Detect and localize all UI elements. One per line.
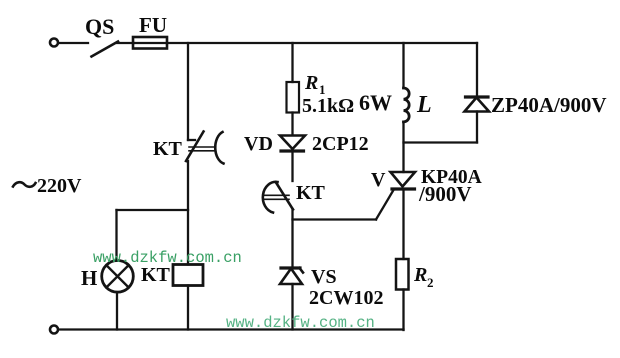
diode VD [280, 136, 305, 152]
svg-text:KT: KT [296, 182, 326, 204]
KT contact (middle) blade [276, 183, 293, 210]
label V [371, 169, 386, 191]
label R2 [413, 264, 434, 290]
wire KT branch from top bus down to contact [188, 43, 195, 140]
svg-text:L: L [416, 92, 432, 118]
relay coil KT [173, 265, 203, 286]
svg-text:H: H [81, 266, 97, 290]
wire contact to VS [291, 209, 293, 267]
wire terminal to switch QS [59, 42, 89, 44]
label /900V [418, 182, 472, 206]
svg-text:5.1kΩ: 5.1kΩ [302, 95, 354, 117]
svg-text:220V: 220V [37, 175, 82, 197]
KT contact (left) delay arc [215, 132, 223, 164]
resistor R2 [396, 259, 409, 290]
wire L/ZP link [404, 141, 478, 143]
wire R2 to bottom bus [402, 290, 404, 331]
label ZP40A/900V [491, 93, 607, 117]
wire gate diagonal to thyristor [376, 190, 394, 220]
wire L to thyristor [402, 122, 404, 172]
wire R1 to VD [291, 113, 293, 136]
label L [416, 92, 432, 118]
lamp H [102, 261, 134, 293]
svg-text:KT: KT [153, 138, 183, 160]
wire lamp branch down [115, 210, 117, 261]
inductor L [404, 88, 410, 122]
svg-text:R: R [304, 72, 318, 94]
svg-text:ZP40A/900V: ZP40A/900V [491, 93, 607, 117]
KT time-delay contact (middle) delay arc [263, 182, 278, 213]
watermark www.dzkfw.com.cn (middle) [93, 249, 242, 267]
label KT (middle contact) [296, 182, 326, 204]
wire thyristor branch top bus to L [402, 43, 404, 88]
svg-text:FU: FU [139, 13, 167, 37]
wire VS to bottom bus [291, 284, 293, 330]
wire coil to bottom bus [187, 286, 189, 330]
fuse FU [133, 37, 167, 49]
thyristor V [391, 172, 416, 189]
label 2CP12 [312, 133, 369, 155]
label H [81, 266, 97, 290]
label R1 value 5.1kOhm [302, 95, 354, 117]
svg-text:KT: KT [141, 264, 171, 286]
terminal bottom-left input [50, 326, 58, 334]
svg-text:www.dzkfw.com.cn: www.dzkfw.com.cn [226, 314, 375, 332]
svg-text:VD: VD [244, 133, 273, 155]
label 2CW102 [309, 287, 383, 309]
svg-text:QS: QS [85, 14, 114, 39]
switch QS blade [92, 42, 119, 57]
terminal top-left input [50, 39, 58, 47]
label KT (left contact) [153, 138, 183, 160]
wire gate horizontal [293, 218, 377, 220]
wire lamp branch horizontal [117, 209, 189, 211]
zener diode VS [280, 268, 303, 284]
label ~220V [13, 175, 82, 197]
svg-text:2: 2 [427, 275, 434, 290]
svg-text:R: R [413, 264, 427, 286]
svg-text:6W: 6W [359, 90, 392, 115]
resistor R1 [287, 82, 300, 113]
wire switch to fuse [117, 42, 134, 44]
svg-text:2CW102: 2CW102 [309, 287, 383, 309]
label QS [85, 14, 114, 39]
KT time-delay contact (left) blade [186, 132, 204, 162]
watermark www.dzkfw.com.cn (bottom) [226, 314, 375, 332]
label FU [139, 13, 167, 37]
svg-text:/900V: /900V [418, 182, 472, 206]
wire ZP branch from top bus [476, 43, 478, 97]
wire lamp to bottom bus [116, 292, 118, 330]
wire VD to KT contact [291, 153, 293, 182]
wire contact to relay coil [187, 161, 189, 265]
wire mid branch from top bus to R1 [291, 43, 293, 82]
svg-text:V: V [371, 169, 386, 191]
wire bottom bus [59, 328, 404, 330]
wire thyristor to R2 [402, 191, 404, 260]
svg-text:2CP12: 2CP12 [312, 133, 369, 155]
diode ZP [465, 97, 490, 112]
label VD [244, 133, 273, 155]
label KT (coil) [141, 264, 171, 286]
label VS [311, 266, 337, 288]
wire ZP to link [476, 112, 478, 143]
label KP40A [421, 167, 482, 188]
KT contact (left) parallel bars [189, 147, 216, 151]
svg-text:VS: VS [311, 266, 337, 288]
wire top bus from fuse to right end [167, 42, 477, 44]
label 6W [359, 90, 392, 115]
svg-text:www.dzkfw.com.cn: www.dzkfw.com.cn [93, 249, 242, 267]
KT contact (middle) parallel bars [263, 195, 289, 199]
label R1 [304, 72, 326, 97]
